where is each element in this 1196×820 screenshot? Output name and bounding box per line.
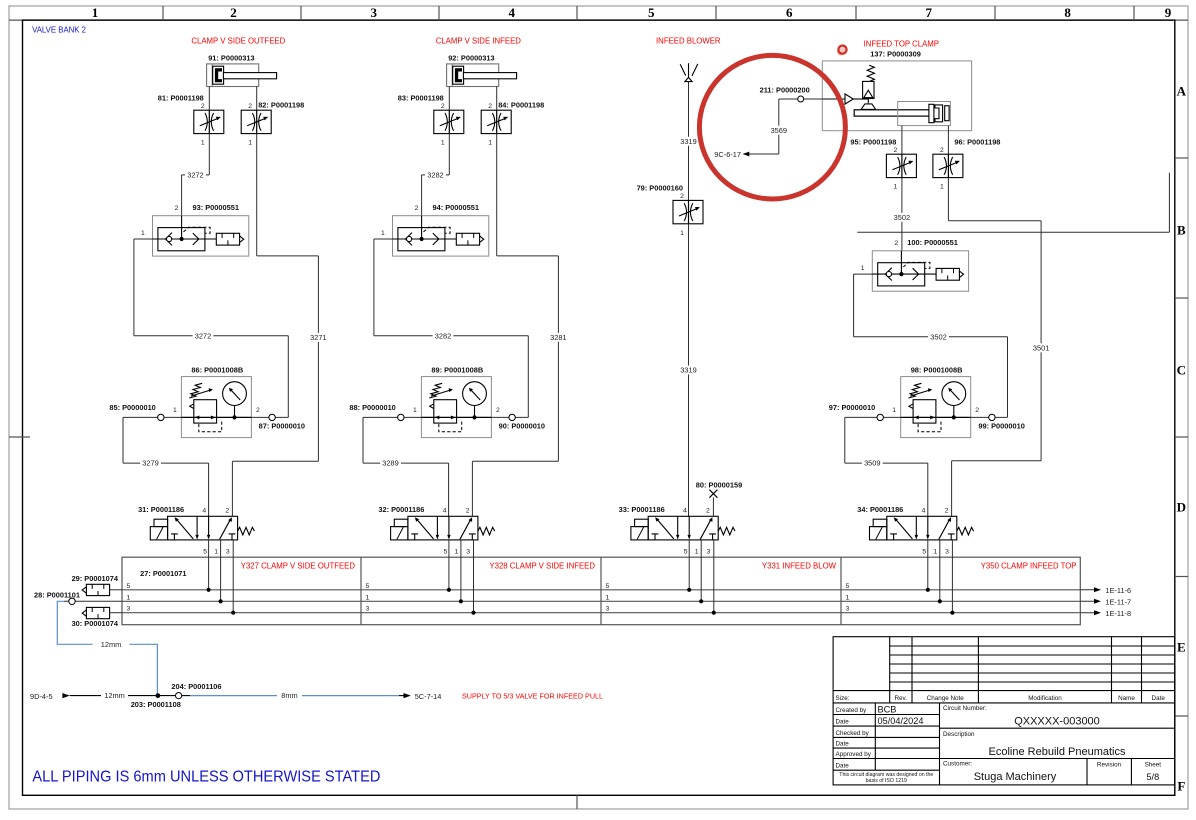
svg-text:3: 3 bbox=[127, 606, 131, 613]
red marker blob bbox=[837, 46, 847, 56]
blue pipe 8mm bbox=[190, 695, 399, 697]
svg-text:30: P0001074: 30: P0001074 bbox=[72, 619, 119, 628]
svg-text:Checked by: Checked by bbox=[836, 730, 870, 737]
svg-text:1E-11-7: 1E-11-7 bbox=[1105, 598, 1131, 607]
wire valve ports to bus bbox=[927, 540, 929, 590]
svg-text:96: P0001198: 96: P0001198 bbox=[954, 137, 1000, 146]
svg-text:3: 3 bbox=[371, 5, 378, 20]
svg-text:203: P0001108: 203: P0001108 bbox=[131, 700, 181, 709]
svg-text:204: P0001106: 204: P0001106 bbox=[171, 682, 221, 691]
svg-text:Change Note: Change Note bbox=[927, 695, 965, 702]
svg-text:SUPPLY TO 5/3 VALVE FOR INFEED: SUPPLY TO 5/3 VALVE FOR INFEED PULL bbox=[462, 692, 603, 701]
svg-text:1: 1 bbox=[381, 230, 385, 237]
fitting 99 P0000010 bbox=[971, 416, 1008, 418]
svg-text:1: 1 bbox=[441, 140, 445, 147]
svg-text:1: 1 bbox=[606, 594, 610, 601]
svg-text:3502: 3502 bbox=[894, 213, 910, 222]
svg-text:91: P0000313: 91: P0000313 bbox=[208, 53, 254, 62]
svg-text:81: P0001198: 81: P0001198 bbox=[158, 93, 204, 102]
arrow to 5C-7-14 bbox=[399, 692, 441, 701]
wire net 3569 bbox=[778, 99, 780, 126]
svg-text:VALVE BANK 2: VALVE BANK 2 bbox=[32, 25, 86, 34]
svg-text:2: 2 bbox=[175, 205, 179, 212]
flow control valve 84 bbox=[481, 101, 544, 134]
svg-text:Size:: Size: bbox=[836, 695, 850, 702]
svg-text:Y331 INFEED BLOW: Y331 INFEED BLOW bbox=[762, 561, 837, 570]
wire check valve port 1 bbox=[374, 238, 393, 240]
svg-text:Y350 CLAMP INFEED TOP: Y350 CLAMP INFEED TOP bbox=[981, 561, 1077, 570]
silencer 29 P0001074 bbox=[72, 574, 122, 596]
svg-text:8mm: 8mm bbox=[281, 691, 297, 700]
svg-text:12mm: 12mm bbox=[104, 691, 125, 700]
svg-text:05/04/2024: 05/04/2024 bbox=[878, 716, 924, 726]
svg-text:1: 1 bbox=[488, 140, 492, 147]
supply source 9D-4-5 bbox=[30, 692, 101, 701]
svg-text:5: 5 bbox=[846, 583, 850, 590]
svg-text:89: P0001008B: 89: P0001008B bbox=[431, 365, 483, 374]
wire stub to border zone B bbox=[857, 231, 1169, 233]
svg-text:9C-6-17: 9C-6-17 bbox=[714, 150, 741, 159]
fitting 87: P0000010 bbox=[251, 416, 288, 418]
svg-text:Y328 CLAMP V SIDE INFEED: Y328 CLAMP V SIDE INFEED bbox=[489, 561, 595, 570]
svg-text:95: P0001198: 95: P0001198 bbox=[850, 137, 896, 146]
svg-text:3501: 3501 bbox=[1033, 343, 1049, 352]
svg-text:1: 1 bbox=[248, 140, 252, 147]
svg-text:3569: 3569 bbox=[771, 126, 787, 135]
svg-text:2: 2 bbox=[256, 407, 260, 414]
svg-text:87: P0000010: 87: P0000010 bbox=[259, 421, 305, 430]
svg-text:Y327 CLAMP V SIDE OUTFEED: Y327 CLAMP V SIDE OUTFEED bbox=[241, 561, 356, 570]
svg-text:BCB: BCB bbox=[878, 705, 897, 715]
wire net 3501 bbox=[947, 178, 949, 221]
svg-text:32: P0001186: 32: P0001186 bbox=[378, 505, 424, 514]
svg-text:F: F bbox=[1177, 779, 1185, 794]
svg-text:Description: Description bbox=[943, 731, 975, 738]
svg-text:QXXXXX-003000: QXXXXX-003000 bbox=[1014, 716, 1100, 728]
filter regulator 98 bbox=[901, 365, 971, 437]
svg-text:Ecoline Rebuild Pneumatics: Ecoline Rebuild Pneumatics bbox=[989, 746, 1126, 758]
svg-text:3272: 3272 bbox=[187, 171, 203, 180]
svg-text:84: P0001198: 84: P0001198 bbox=[498, 101, 544, 110]
blue pipe 12mm from fitting 28 bbox=[57, 601, 157, 695]
svg-text:85: P0000010: 85: P0000010 bbox=[109, 403, 155, 412]
svg-text:82: P0001198: 82: P0001198 bbox=[258, 101, 304, 110]
fitting 88: P0000010 bbox=[363, 416, 421, 418]
svg-text:Modification: Modification bbox=[1028, 695, 1062, 702]
wire net 3502 vertical bbox=[901, 178, 903, 213]
bus line 3 bbox=[122, 612, 1080, 614]
svg-text:1: 1 bbox=[141, 230, 145, 237]
svg-text:3281: 3281 bbox=[550, 333, 566, 342]
bus exit arrows 1E-11 bbox=[1080, 586, 1131, 618]
svg-text:100: P0000551: 100: P0000551 bbox=[907, 238, 958, 247]
wire net 3289 bbox=[362, 417, 364, 463]
filter regulator 89: P0001008B bbox=[421, 365, 491, 437]
svg-text:1: 1 bbox=[940, 184, 944, 191]
svg-text:B: B bbox=[1177, 223, 1186, 238]
svg-text:92: P0000313: 92: P0000313 bbox=[448, 53, 494, 62]
svg-text:5: 5 bbox=[606, 583, 610, 590]
wire net 3281 bbox=[496, 134, 498, 256]
svg-text:88: P0000010: 88: P0000010 bbox=[349, 403, 395, 412]
svg-text:79: P0000160: 79: P0000160 bbox=[637, 184, 683, 193]
svg-text:9: 9 bbox=[1165, 5, 1172, 20]
svg-text:2: 2 bbox=[940, 147, 944, 154]
wire cylinder ports bbox=[208, 87, 210, 111]
svg-text:29: P0001074: 29: P0001074 bbox=[72, 574, 119, 583]
svg-text:5: 5 bbox=[366, 583, 370, 590]
wire valve ports to bus bbox=[208, 540, 210, 590]
svg-text:97: P0000010: 97: P0000010 bbox=[829, 403, 875, 412]
svg-text:2: 2 bbox=[488, 103, 492, 110]
flow control valve 79 bbox=[637, 184, 703, 224]
plug 80 P0000159 on valve 33 port 2 bbox=[696, 481, 742, 517]
svg-text:3: 3 bbox=[366, 606, 370, 613]
svg-text:1: 1 bbox=[846, 594, 850, 601]
svg-text:2: 2 bbox=[230, 5, 237, 20]
solenoid valve 33: P0001186 bbox=[619, 505, 735, 556]
svg-text:3: 3 bbox=[606, 606, 610, 613]
svg-text:3319: 3319 bbox=[680, 366, 696, 375]
svg-text:1E-11-6: 1E-11-6 bbox=[1105, 586, 1131, 595]
svg-text:1: 1 bbox=[366, 594, 370, 601]
svg-text:9D-4-5: 9D-4-5 bbox=[30, 692, 53, 701]
svg-text:2: 2 bbox=[680, 193, 684, 200]
pilot check valve 94: P0000551 bbox=[381, 203, 489, 256]
cylinder 91: P0000313 bbox=[207, 53, 277, 86]
solenoid valve 32: P0001186 bbox=[378, 505, 494, 556]
svg-text:34: P0001186: 34: P0001186 bbox=[857, 505, 903, 514]
svg-text:1: 1 bbox=[894, 184, 898, 191]
pilot check valve 100 bbox=[861, 238, 969, 291]
svg-text:1: 1 bbox=[861, 265, 865, 272]
svg-text:E: E bbox=[1177, 640, 1186, 655]
zone column numbers bbox=[92, 5, 1172, 20]
svg-text:6: 6 bbox=[786, 5, 793, 20]
wire net 3272 bbox=[208, 134, 210, 175]
svg-text:86: P0001008B: 86: P0001008B bbox=[191, 365, 243, 374]
svg-text:ALL PIPING IS 6mm UNLESS OTHER: ALL PIPING IS 6mm UNLESS OTHERWISE STATE… bbox=[32, 769, 380, 786]
svg-text:Circuit Number:: Circuit Number: bbox=[943, 705, 987, 712]
pilot check valve 93: P0000551 bbox=[141, 203, 249, 256]
svg-text:Date: Date bbox=[836, 719, 850, 726]
solenoid valve 34: P0001186 bbox=[857, 505, 973, 556]
flow control valve 82 bbox=[241, 101, 304, 134]
svg-text:3509: 3509 bbox=[864, 459, 880, 468]
fitting 28 P0001101 bbox=[34, 591, 122, 605]
wire to 9C-6-17 bbox=[746, 153, 779, 155]
svg-text:137: P0000309: 137: P0000309 bbox=[870, 49, 921, 58]
red highlight circle bbox=[699, 55, 845, 199]
svg-text:INFEED TOP CLAMP: INFEED TOP CLAMP bbox=[864, 39, 939, 48]
svg-text:1E-11-8: 1E-11-8 bbox=[1105, 609, 1131, 618]
svg-text:1: 1 bbox=[201, 140, 205, 147]
svg-text:3279: 3279 bbox=[142, 459, 158, 468]
svg-text:5: 5 bbox=[648, 5, 655, 20]
svg-text:Customer:: Customer: bbox=[943, 761, 972, 768]
svg-text:INFEED BLOWER: INFEED BLOWER bbox=[656, 36, 721, 45]
svg-text:8: 8 bbox=[1064, 5, 1071, 20]
wire net 3272 bbox=[134, 335, 193, 337]
svg-text:2: 2 bbox=[894, 240, 898, 247]
svg-text:31: P0001186: 31: P0001186 bbox=[138, 505, 184, 514]
fitting 211 P0000200 bbox=[760, 86, 823, 102]
svg-text:2: 2 bbox=[201, 103, 205, 110]
svg-text:A: A bbox=[1177, 84, 1187, 99]
svg-text:211: P0000200: 211: P0000200 bbox=[760, 86, 810, 95]
svg-text:3271: 3271 bbox=[310, 333, 326, 342]
svg-text:4: 4 bbox=[509, 5, 516, 20]
wire net 3282 bbox=[374, 335, 433, 337]
svg-text:1: 1 bbox=[92, 5, 99, 20]
svg-text:5: 5 bbox=[127, 583, 131, 590]
svg-text:98: P0001008B: 98: P0001008B bbox=[911, 365, 963, 374]
svg-text:Sheet: Sheet bbox=[1145, 762, 1162, 769]
manifold 27 P0001071 bbox=[122, 557, 1080, 625]
svg-text:3502: 3502 bbox=[930, 332, 946, 341]
svg-text:93: P0000551: 93: P0000551 bbox=[193, 203, 239, 212]
svg-text:5/8: 5/8 bbox=[1146, 772, 1159, 782]
fitting 97 P0000010 bbox=[845, 416, 901, 418]
wire valve ports to bus bbox=[688, 540, 690, 590]
svg-text:2: 2 bbox=[248, 103, 252, 110]
svg-text:33: P0001186: 33: P0001186 bbox=[619, 505, 665, 514]
node 203 P0001108 bbox=[131, 693, 181, 709]
wire net 3502 horizontal bbox=[854, 273, 873, 275]
filter regulator 86: P0001008B bbox=[181, 365, 251, 437]
svg-text:2: 2 bbox=[415, 205, 419, 212]
svg-text:5C-7-14: 5C-7-14 bbox=[415, 692, 442, 701]
svg-text:Rev.: Rev. bbox=[895, 695, 908, 702]
wire net 3319 lower bbox=[688, 224, 690, 366]
clamp unit 137 P0000309 bbox=[822, 49, 971, 130]
flow control valve 95 bbox=[850, 137, 916, 177]
wire net 3319 upper bbox=[688, 82, 690, 137]
svg-text:C: C bbox=[1177, 363, 1186, 378]
bus line 5 bbox=[122, 589, 1080, 591]
svg-text:3282: 3282 bbox=[435, 331, 451, 340]
wire cylinder ports bbox=[448, 87, 450, 111]
svg-text:Date: Date bbox=[836, 741, 850, 748]
svg-text:2: 2 bbox=[894, 147, 898, 154]
svg-text:7: 7 bbox=[925, 5, 932, 20]
pipe 12mm black segment bbox=[128, 695, 145, 697]
svg-text:90: P0000010: 90: P0000010 bbox=[499, 421, 545, 430]
svg-text:Stuga Machinery: Stuga Machinery bbox=[974, 771, 1057, 783]
svg-text:2: 2 bbox=[496, 407, 500, 414]
flow control valve 96 bbox=[933, 137, 1001, 177]
flow control valve 83 bbox=[398, 93, 464, 133]
fitting 204 P0001106 bbox=[171, 682, 221, 699]
wire check valve port 1 bbox=[134, 238, 153, 240]
svg-text:27: P0001071: 27: P0001071 bbox=[140, 569, 186, 578]
wire net 3509 bbox=[844, 417, 846, 463]
svg-text:Created by: Created by bbox=[836, 707, 868, 714]
svg-text:Name: Name bbox=[1118, 695, 1135, 702]
svg-text:2: 2 bbox=[975, 407, 979, 414]
svg-text:1: 1 bbox=[892, 407, 896, 414]
svg-text:3319: 3319 bbox=[680, 137, 696, 146]
svg-text:1: 1 bbox=[680, 230, 684, 237]
svg-text:Date: Date bbox=[1152, 695, 1166, 702]
svg-text:CLAMP V SIDE INFEED: CLAMP V SIDE INFEED bbox=[436, 36, 522, 45]
fitting 90: P0000010 bbox=[491, 416, 528, 418]
silencer 30 P0001074 bbox=[72, 607, 122, 627]
blower nozzle bbox=[680, 63, 698, 81]
flow control valve 81 bbox=[158, 93, 224, 133]
wire net 3282 bbox=[448, 134, 450, 175]
svg-text:12mm: 12mm bbox=[101, 640, 122, 649]
svg-text:1: 1 bbox=[127, 594, 131, 601]
svg-text:1: 1 bbox=[413, 407, 417, 414]
svg-text:Date: Date bbox=[836, 763, 850, 770]
svg-text:basis of ISO 1219: basis of ISO 1219 bbox=[866, 778, 907, 784]
wire net 3271 bbox=[256, 134, 258, 256]
wire clamp ports bbox=[901, 126, 903, 155]
svg-text:2: 2 bbox=[441, 103, 445, 110]
svg-text:80: P0000159: 80: P0000159 bbox=[696, 481, 742, 490]
svg-text:3272: 3272 bbox=[195, 331, 211, 340]
svg-text:3: 3 bbox=[846, 606, 850, 613]
svg-text:CLAMP V SIDE OUTFEED: CLAMP V SIDE OUTFEED bbox=[191, 36, 285, 45]
fitting 85: P0000010 bbox=[123, 416, 181, 418]
svg-text:1: 1 bbox=[173, 407, 177, 414]
svg-text:Revision: Revision bbox=[1097, 762, 1122, 769]
bus line 1 bbox=[122, 600, 1080, 602]
solenoid valve 31: P0001186 bbox=[138, 505, 254, 556]
svg-text:83: P0001198: 83: P0001198 bbox=[398, 93, 444, 102]
svg-text:94: P0000551: 94: P0000551 bbox=[433, 203, 479, 212]
svg-text:D: D bbox=[1177, 500, 1186, 515]
wire valve ports to bus bbox=[448, 540, 450, 590]
svg-text:3282: 3282 bbox=[427, 171, 443, 180]
svg-text:3289: 3289 bbox=[382, 459, 398, 468]
svg-text:99: P0000010: 99: P0000010 bbox=[978, 421, 1024, 430]
svg-text:Approved by: Approved by bbox=[836, 751, 872, 758]
title block bbox=[833, 637, 1175, 785]
cylinder 92: P0000313 bbox=[447, 53, 517, 86]
wire net 3279 bbox=[122, 417, 124, 463]
